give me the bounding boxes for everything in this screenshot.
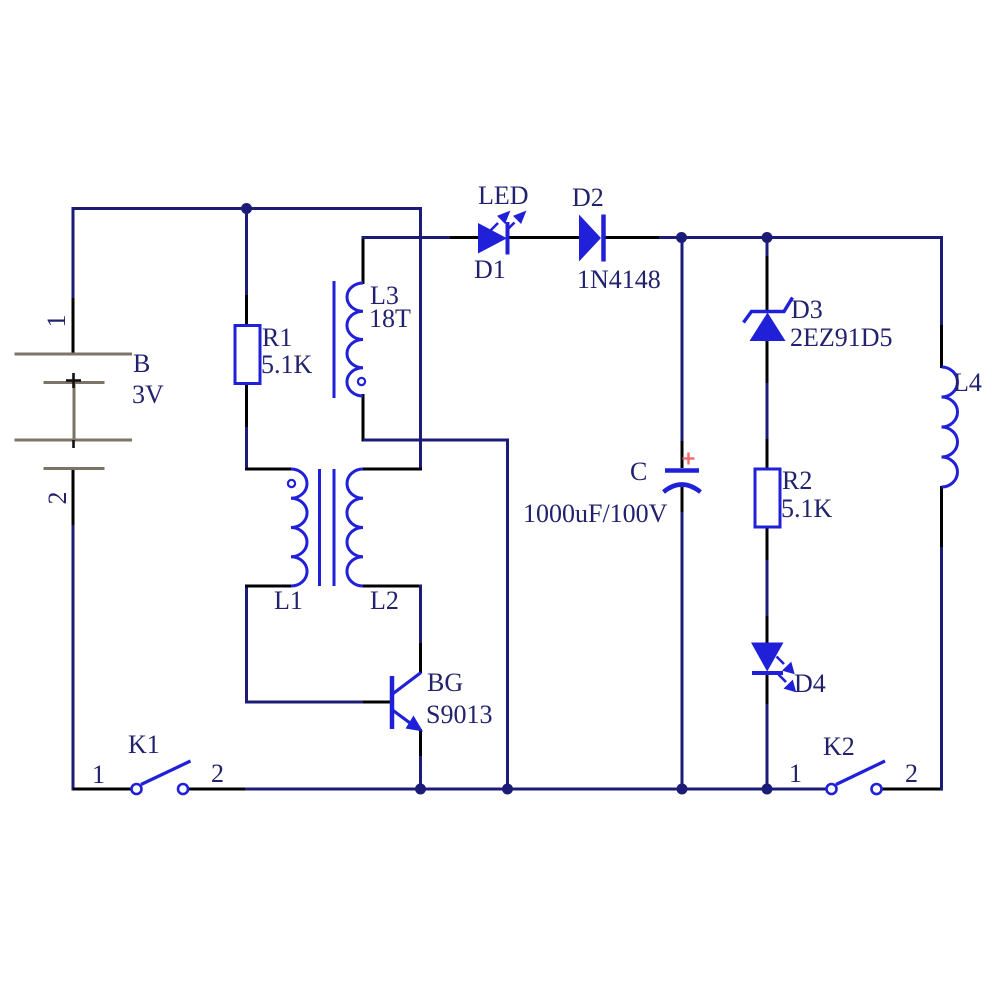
battery B plate3 long [15,439,133,442]
svg-text:1: 1 [789,759,802,788]
switch K1 lever [141,761,191,785]
svg-text:L4: L4 [953,368,982,397]
wire left rail below battery [72,469,75,528]
junction dot node C top [676,232,687,243]
transformer L3 phase dot [358,378,365,385]
svg-text:1N4148: 1N4148 [577,265,661,294]
inductor L4 winding [942,367,958,487]
svg-text:2: 2 [211,759,224,788]
svg-text:2: 2 [43,492,72,505]
wire L2 bottom lead black [362,585,422,588]
LED D4 arrow 2 [779,675,796,692]
LED D1 triangle [478,223,507,254]
wire R1 bottom lead black [245,383,248,429]
wire emitter to bottom rail [419,756,422,789]
svg-text:K2: K2 [823,732,855,761]
transformer winding L1 [291,469,307,586]
svg-text:D2: D2 [572,183,604,212]
junction dot D4 bottom rail [762,784,773,795]
svg-text:BG: BG [427,668,463,697]
LED D4 triangle [751,643,784,672]
wire capacitor top lead black [681,441,684,468]
wire L2 bottom to collector [419,585,422,646]
switch K1 contact 1 circle [132,784,142,794]
LED D1 cathode bar [506,222,510,255]
wire D3 to R2 [766,383,769,441]
diode D2 cathode bar [601,215,606,262]
wire bottom rail K2 right lead black [881,788,943,791]
wire L1 bottom lead black [245,585,291,588]
switch K1 contact 2 circle [178,784,188,794]
wire R1 branch from junction [245,208,248,297]
svg-text:1000uF/100V: 1000uF/100V [523,499,668,528]
transistor Q1 collector stroke [393,673,422,695]
svg-text:C: C [630,457,647,486]
svg-text:L2: L2 [370,586,399,615]
battery B lower tick [72,440,75,448]
svg-text:5.1K: 5.1K [781,494,833,523]
svg-text:R2: R2 [782,466,812,495]
wire output top rail [659,236,768,239]
wire D3 cathode lead black [766,256,769,310]
transistor Q1 emitter stroke [393,710,415,726]
svg-text:K1: K1 [128,730,160,759]
wire L4 top lead black [940,325,943,368]
wire L4 bottom lead black [940,486,943,547]
wire L3 top lead black [362,236,365,284]
wire R2 bottom lead black [766,527,769,562]
wire R1 top lead black [245,295,248,326]
wire D3 anode lead black [766,340,769,385]
resistor R1 [235,326,260,384]
wire bottom rail center [245,788,827,791]
junction dot L3 return rail [502,784,513,795]
wire D4 cathode lead black [766,674,769,706]
wire top rail battery+ [73,209,421,355]
svg-text:3V: 3V [132,380,164,409]
svg-text:S9013: S9013 [426,700,492,729]
switch K2 lever [836,761,885,785]
LED D1 arrow 1 [491,212,510,231]
transistor Q1 base bar [390,676,395,729]
wire capacitor branch [681,236,684,443]
junction dot node D3 top [762,232,773,243]
wire D2 cathode black [605,236,661,239]
transformer L3 core bar [333,281,336,398]
battery B plate2 short [44,381,105,384]
wire right rail lower [940,545,943,790]
wire left rail battery top lead black [72,298,75,355]
wire collector lead black [419,643,422,673]
wire capacitor to bottom rail [681,512,684,789]
capacitor C plus mark [683,453,695,465]
wire right rail upper [767,238,942,328]
wire R1 to L1 top corner [245,427,248,471]
svg-text:2: 2 [905,759,918,788]
wire L3 top to LED navy start [362,236,452,239]
wire L2 top vertical from top rail [419,207,422,471]
svg-text:B: B [133,349,150,378]
junction dot emitter rail [415,784,426,795]
wire R2 top lead black [766,439,769,469]
svg-text:1: 1 [92,760,105,789]
svg-text:LED: LED [478,181,529,210]
wire capacitor bottom lead black [681,487,684,514]
resistor R2 [755,469,780,527]
svg-text:D1: D1 [474,255,506,284]
svg-text:D4: D4 [794,669,826,698]
svg-text:R1: R1 [262,323,292,352]
transistor Q1 emitter arrowhead [406,716,424,732]
wire LED D1 anode black [450,236,479,239]
switch K2 contact 1 circle [827,784,837,794]
svg-text:L1: L1 [274,586,303,615]
wire L2 top lead black [362,468,422,471]
wire L1 bottom to transistor base [247,588,366,703]
switch K2 contact 2 circle [872,784,882,794]
svg-text:5.1K: 5.1K [261,350,313,379]
svg-text:D3: D3 [791,295,823,324]
transformer core bar right [333,469,336,586]
wire D4 to bottom rail [766,704,769,789]
capacitor C top plate [665,468,699,473]
transformer winding L2 [347,469,363,586]
wire bottom rail K1 right to dots black then navy [188,788,246,791]
zener diode D3 bar [744,298,793,323]
LED D4 arrow 1 [777,657,795,674]
svg-text:1: 1 [42,315,71,328]
wire R2 to D4 [766,560,769,618]
wire left rail to bottom [73,525,135,789]
svg-text:18T: 18T [369,304,411,333]
LED D4 cathode bar [752,671,783,675]
svg-text:2EZ91D5: 2EZ91D5 [790,323,893,352]
junction dot top R1 [241,203,252,214]
diode D2 triangle [579,215,601,262]
wire L3 bottom lead black [362,394,365,442]
wire D1 to D2 black [509,236,579,239]
wire emitter lead black [419,729,422,758]
wire L3 bottom to emitter rail [363,440,508,789]
battery B plate1 long [15,353,133,356]
LED D1 arrow 2 [508,212,526,230]
wire D3 branch [766,236,769,258]
wire base lead black [363,701,390,704]
zener diode D3 triangle [750,313,786,342]
battery B plate4 short [44,467,105,470]
capacitor C bottom plate curved [664,485,701,493]
transformer L1 phase dot [288,480,295,487]
battery B inter-cell link [73,383,76,441]
transformer core bar left [318,469,321,586]
junction dot cap bottom rail [677,784,688,795]
wire L1 top lead black [245,468,291,471]
wire bottom rail K1 left lead black [73,788,132,791]
battery B plus mark [66,373,81,388]
wire D4 anode lead black [766,616,769,644]
transformer winding L3 [347,283,363,396]
